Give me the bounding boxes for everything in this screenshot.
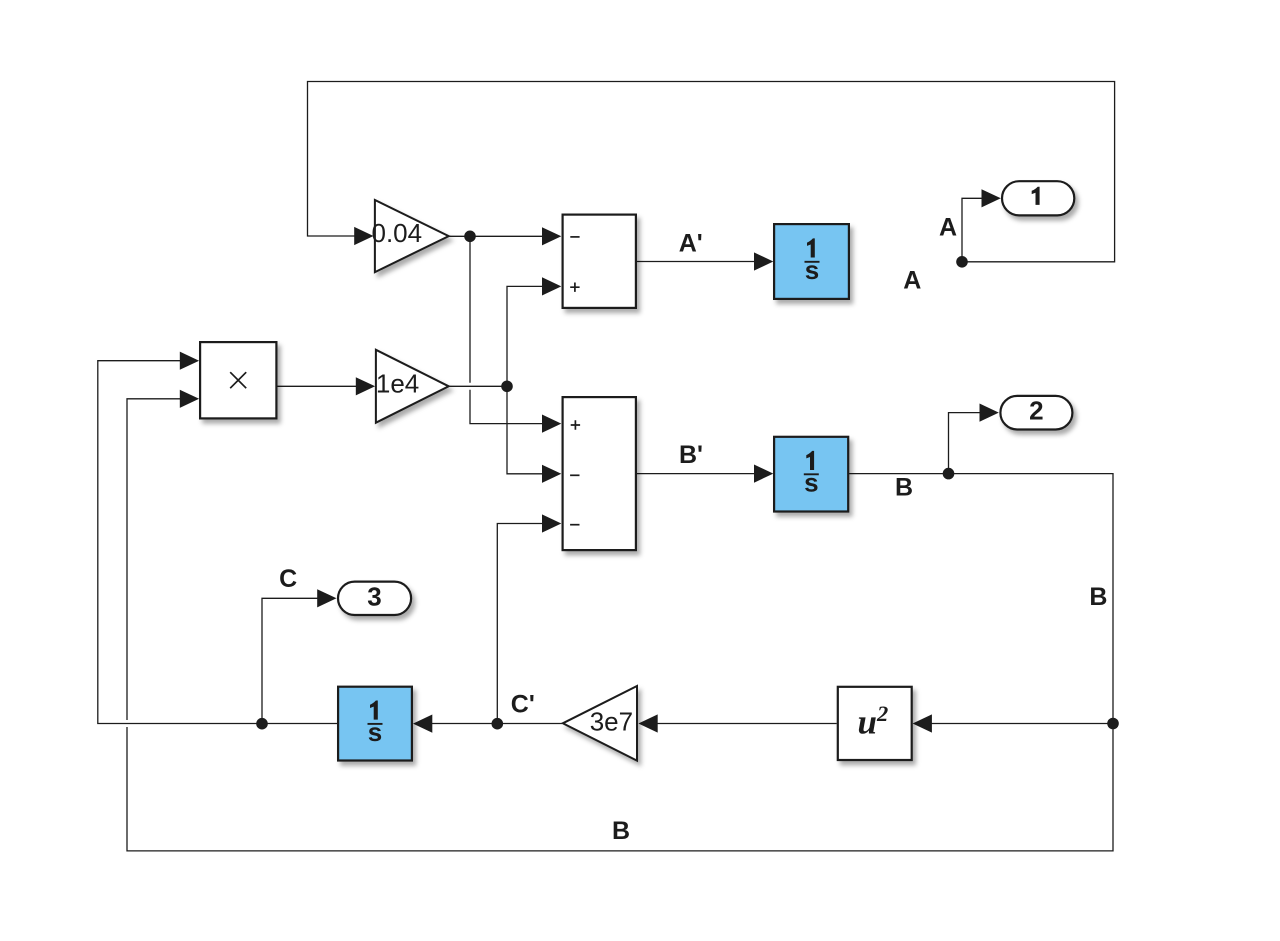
svg-text:B: B	[895, 474, 913, 502]
gain K2 (1e4)	[376, 350, 449, 423]
wire: gain K1 output to node N1 to sum S1 minus input	[449, 235, 543, 237]
arrowhead into integrator I1	[754, 252, 773, 270]
wire: node N2 up to sum S1 plus input	[507, 286, 543, 386]
wire casing: gap of vertical at crossing (470,386.3)	[461, 383, 479, 390]
wire: gain K2 output to node N2	[449, 385, 507, 387]
sum S2 minus sign bottom	[570, 524, 579, 526]
gain K3 (3e7, pointing left)	[563, 686, 637, 761]
wire casing: gap of vertical at crossing (127,723.5)	[118, 720, 136, 727]
junction node N6 (C line)	[256, 718, 268, 730]
arrowhead into out port 2	[980, 404, 999, 422]
wire: node N2 down to sum S2 minus input	[507, 386, 543, 474]
integrator I3 (1/s)	[338, 687, 412, 761]
sum S2 plus sign	[571, 420, 580, 429]
product P1 multiply sign	[230, 372, 246, 388]
wire: node C' up to sum S2 bottom minus input	[497, 524, 543, 724]
svg-text:A: A	[903, 267, 921, 295]
svg-text:s: s	[805, 255, 819, 285]
arrowhead into sum S2 minus bottom	[542, 514, 561, 532]
wire: node N6 up to out port 3	[262, 598, 318, 723]
sum S1 minus sign	[570, 236, 579, 238]
junction node N1 (0.04 output)	[464, 231, 476, 243]
wire: node N5 left to math block M1 input	[932, 723, 1114, 725]
arrowhead into sum S2 minus mid	[542, 465, 561, 483]
junction node N2 (1e4 output)	[501, 381, 513, 393]
wire: product P1 output to gain K2 input	[278, 385, 357, 387]
wire: integrator I3 output left through node N6 up to product P1 input 1	[98, 361, 337, 724]
sum block S1	[563, 215, 636, 308]
wire: node N1 down to sum S2 plus input (vertical, crosses 1e4 wire)	[470, 236, 543, 423]
gain K1 (0.04)	[375, 200, 449, 272]
sum S1 plus sign	[570, 283, 579, 292]
svg-text:3e7: 3e7	[590, 706, 633, 736]
arrowhead into gain K3 (left)	[638, 714, 657, 732]
arrowhead into product P1 input 2	[180, 390, 199, 408]
wire: integrator I2 output through node B right and down to node N5	[849, 474, 1113, 724]
arrowhead into integrator I3 (left)	[413, 715, 432, 733]
wire: sum S1 output to integrator I1 input	[637, 261, 755, 263]
wire: feedback A loop (node A to gain K1 input)	[308, 82, 1115, 262]
out port 2	[1000, 396, 1072, 430]
junction node B	[943, 468, 955, 480]
arrowhead into math block M1 (left)	[913, 714, 932, 732]
svg-text:2: 2	[1029, 396, 1043, 426]
svg-text:C': C'	[511, 691, 535, 719]
integrator I3 label 1/s	[368, 701, 383, 748]
wire: gain K3 output to node C' and integrator I3 input	[432, 723, 563, 725]
svg-text:B': B'	[679, 441, 703, 469]
integrator I2 label 1/s	[804, 451, 819, 498]
svg-text:A: A	[939, 214, 957, 242]
integrator I1 label 1/s	[805, 238, 820, 285]
svg-text:B: B	[1089, 583, 1107, 611]
integrator I2 (1/s)	[774, 437, 848, 512]
junction node C'	[492, 718, 504, 730]
arrowhead into gain K2	[356, 377, 375, 395]
wire: sum S2 output to integrator I2 input	[637, 473, 755, 475]
arrowhead into out port 1	[982, 189, 1001, 207]
junction node A	[956, 256, 968, 268]
arrowhead into gain K1	[354, 227, 373, 245]
junction node N5 (B right lower)	[1107, 718, 1119, 730]
svg-text:s: s	[368, 717, 382, 747]
wire: bottom B loop from node N5 down and left up to product P1 input 2 (crosses C wire)	[127, 399, 1113, 851]
svg-text:0.04: 0.04	[371, 218, 422, 248]
svg-text:C: C	[279, 565, 297, 593]
wire: node A up to out port 1	[962, 198, 983, 261]
arrowhead into product P1 input 1	[180, 352, 199, 370]
svg-text:3: 3	[367, 582, 381, 612]
arrowhead into sum S2 plus	[542, 415, 561, 433]
out port 1 label	[1032, 187, 1040, 205]
sum S2 minus sign mid	[570, 474, 579, 476]
svg-text:B: B	[612, 817, 630, 845]
arrowhead into sum S1 plus	[542, 277, 561, 295]
out port 1	[1002, 181, 1074, 215]
wire: math block M1 output to gain K3 input	[657, 723, 837, 725]
wire: node B up to out port 2	[949, 413, 981, 474]
svg-text:s: s	[804, 468, 818, 498]
arrowhead into integrator I2	[754, 465, 773, 483]
svg-text:A': A'	[679, 229, 703, 257]
arrowhead into out port 3	[317, 589, 336, 607]
math function block M1 (u squared)	[838, 687, 912, 760]
svg-text:1e4: 1e4	[376, 368, 419, 398]
out port 3	[338, 582, 411, 615]
product block P1	[200, 342, 276, 418]
integrator I1 (1/s)	[774, 224, 849, 299]
arrowhead into sum S1 minus	[542, 227, 561, 245]
sum block S2	[563, 397, 636, 550]
